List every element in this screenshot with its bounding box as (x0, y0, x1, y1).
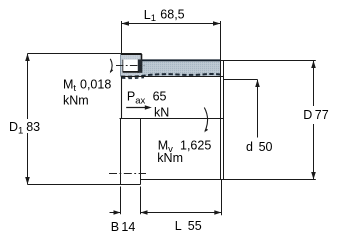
svg-text:kNm: kNm (63, 93, 89, 107)
boss left edge (120, 54, 122, 77)
L1 left arrowhead (122, 21, 130, 26)
inner ring sleeve blue section (142, 61, 221, 77)
svg-text:L55: L55 (175, 219, 202, 233)
body left edge (121, 77, 123, 119)
slot left edge (122, 60, 124, 72)
d arrowhead (255, 80, 260, 88)
set screw boss blue section (121, 54, 142, 77)
dimension L line (141, 212, 222, 214)
svg-text:Pax65: Pax65 (127, 89, 167, 106)
thread dashes extra (122, 77, 144, 80)
boss top edge (121, 53, 142, 55)
dimension D bottom extension (224, 179, 316, 181)
svg-text:kNm: kNm (157, 151, 183, 165)
B left arrowhead (114, 210, 121, 214)
dimension D1 top extension (28, 53, 121, 55)
D top arrowhead (311, 61, 316, 69)
B right arrowhead (141, 210, 148, 214)
body step line (120, 118, 224, 120)
dimension L1 right extension (220, 21, 222, 60)
svg-text:Mt0,018: Mt0,018 (63, 77, 111, 94)
slot right wall dark (138, 59, 142, 72)
shaft piece right edge (140, 119, 142, 185)
body bottom edge (141, 179, 224, 181)
svg-text:D77: D77 (303, 108, 328, 122)
dimension D1 bottom extension (28, 184, 121, 186)
D1 bottom arrowhead (25, 177, 30, 185)
dimension L right extension (221, 180, 223, 215)
dimension d line (257, 80, 259, 138)
svg-text:kN: kN (154, 105, 169, 119)
dimension B left extension (120, 187, 122, 215)
dimension L1 line (122, 23, 221, 25)
boss right edge (141, 54, 143, 73)
moment Mt arc arrow (110, 59, 112, 73)
svg-text:d50: d50 (246, 140, 273, 154)
svg-text:B14: B14 (111, 220, 136, 234)
thread dashed line (121, 74, 220, 77)
slot bottom edge (123, 71, 139, 73)
body outline top edge (122, 76, 224, 78)
shaft piece bottom edge (121, 184, 141, 186)
shaft centerline (109, 173, 146, 175)
body right edge inner (220, 61, 222, 180)
D bottom arrowhead (311, 172, 316, 180)
svg-text:D183: D183 (9, 120, 40, 137)
D1 top arrowhead (25, 54, 30, 62)
dimension L1 left extension (121, 21, 123, 54)
dimension D line (313, 61, 315, 107)
moment Mv arc arrow (204, 108, 207, 132)
B left tail line (110, 212, 121, 214)
dimension D top extension (221, 60, 316, 62)
shaft piece left edge (120, 119, 122, 185)
screw centerline (116, 65, 144, 67)
L1 right arrowhead (213, 21, 221, 26)
dimension B right extension (140, 187, 142, 215)
set screw slot white (123, 60, 138, 72)
axial load arrow Pax (126, 107, 149, 109)
sleeve top edge (142, 59, 221, 61)
svg-text:L168,5: L168,5 (144, 8, 185, 25)
dimension d extension (224, 79, 258, 81)
L right arrowhead (214, 210, 221, 214)
dimension D1 line (27, 54, 29, 120)
body right edge outer (223, 61, 225, 180)
